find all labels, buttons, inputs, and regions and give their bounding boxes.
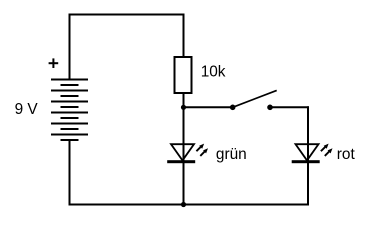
wire bottom horizontal [69, 204, 310, 206]
bottom junction dot [181, 202, 186, 207]
LED D2 emission arrow 1 [321, 144, 329, 152]
LED D2 cathode bar [292, 160, 320, 163]
wire middle vertical upper (top to resistor) [183, 14, 185, 59]
switch S1 right contact dot [267, 105, 273, 111]
wire left vertical (battery + to top) [69, 14, 71, 80]
LED D2 red triangle [296, 144, 319, 160]
LED D1 emission arrow 1 [196, 144, 204, 152]
resistor R1 [175, 57, 192, 93]
wire battery - to bottom [69, 140, 71, 206]
wire resistor to node A [183, 93, 185, 108]
svg-text:9 V: 9 V [15, 101, 39, 118]
node A junction dot [181, 105, 186, 110]
switch S1 left contact dot [230, 105, 236, 111]
switch S1 lever [233, 90, 277, 107]
LED D1 cathode bar [167, 160, 195, 163]
svg-text:grün: grün [216, 146, 247, 163]
battery B1 9V [51, 80, 88, 141]
wire top horizontal [69, 14, 185, 16]
LED D2 emission arrow 2 [325, 148, 333, 156]
svg-text:rot: rot [337, 146, 356, 163]
svg-text:10k: 10k [201, 63, 226, 80]
battery plus sign [49, 58, 59, 68]
LED D1 green triangle [171, 144, 194, 160]
wire right vertical (switch through LED to bottom) [307, 106, 309, 204]
LED D1 emission arrow 2 [200, 148, 208, 156]
wire middle vertical lower (node A through LED to bottom) [183, 107, 185, 204]
wire switch to right branch [270, 106, 309, 108]
wire node A to switch [184, 106, 233, 108]
